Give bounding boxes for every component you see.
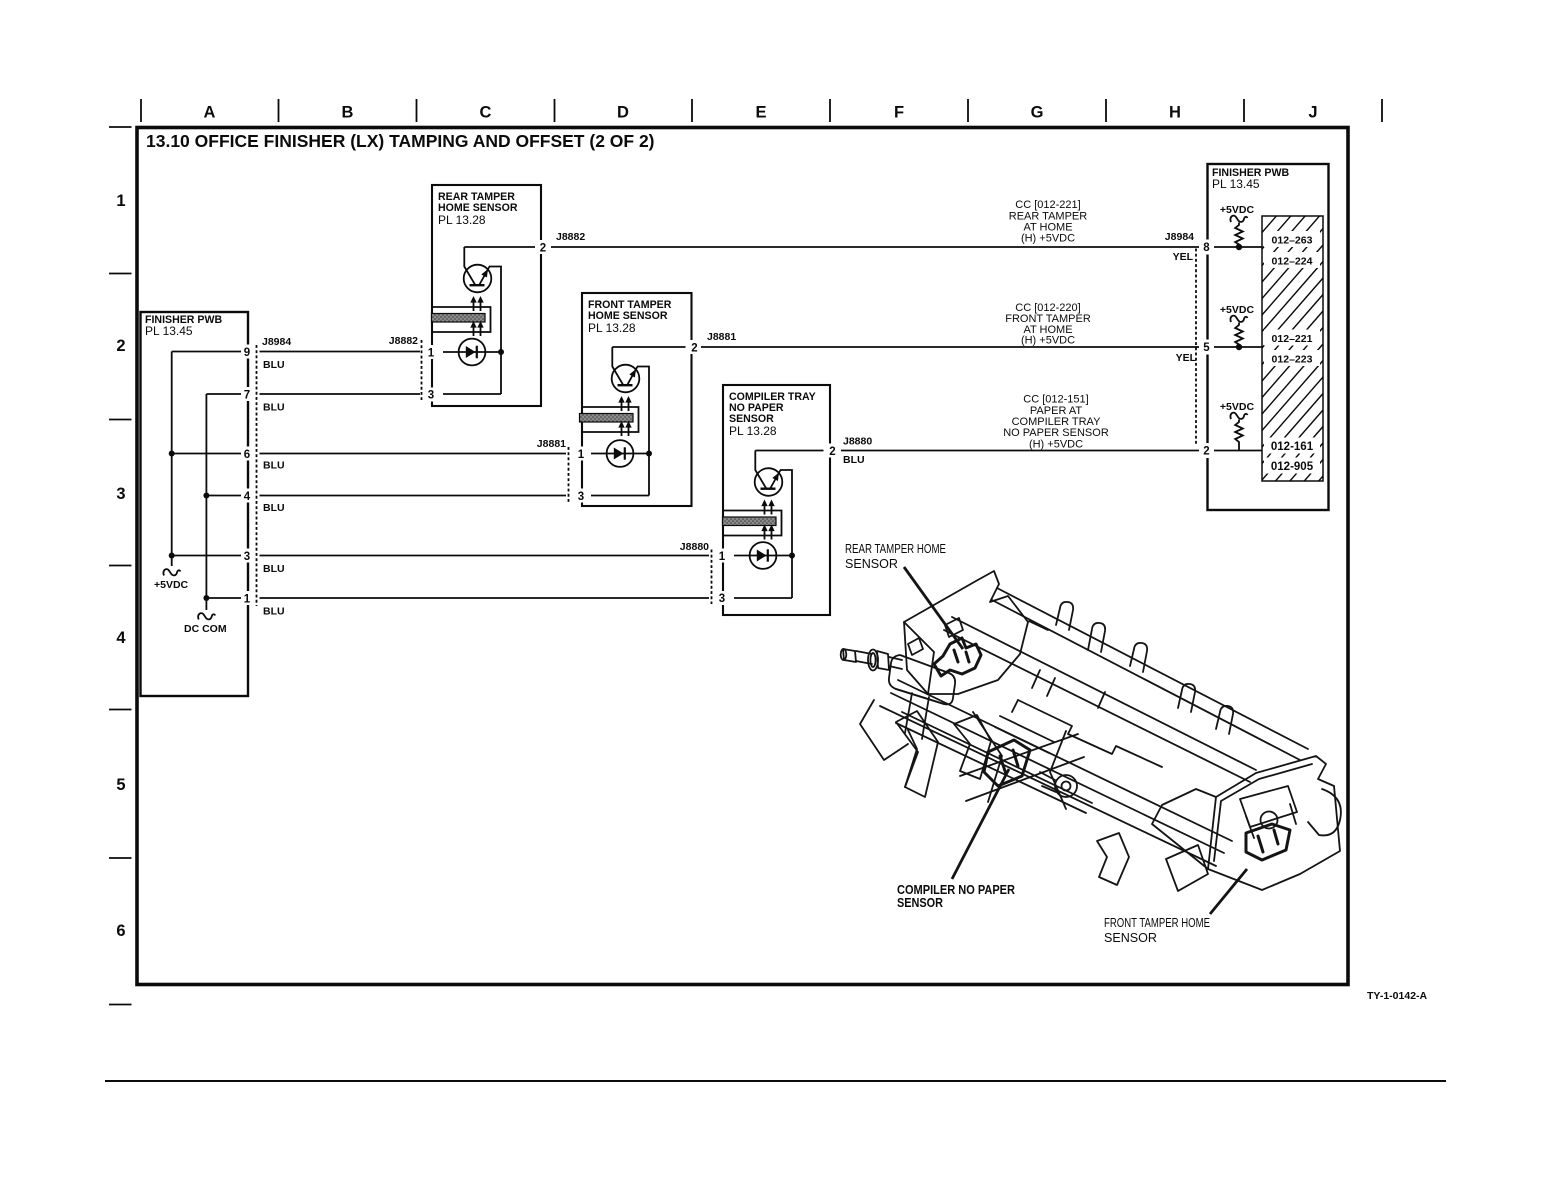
right hook arm xyxy=(1308,789,1341,835)
guide hook 5 xyxy=(1216,706,1233,734)
svg-text:J8882: J8882 xyxy=(389,335,418,347)
wire pin3 xyxy=(443,393,501,395)
wire J8984-6 to J8881-1 xyxy=(260,453,567,455)
svg-text:REAR TAMPER HOME: REAR TAMPER HOME xyxy=(845,542,946,556)
top ruler ticks xyxy=(141,99,1382,122)
svg-text:J8881: J8881 xyxy=(537,438,566,450)
junction pin1/DCCOM bus xyxy=(203,595,209,601)
svg-text:BLU: BLU xyxy=(263,606,285,618)
bottom rule xyxy=(105,1080,1446,1082)
sensor S2: FRONT TAMPER HOME SENSOR xyxy=(537,293,699,506)
sensor S1: REAR TAMPER HOME SENSOR xyxy=(389,185,548,406)
LED D xyxy=(591,453,649,455)
light arrows xyxy=(765,505,772,540)
svg-text:(H) +5VDC: (H) +5VDC xyxy=(1021,233,1075,245)
svg-text:3: 3 xyxy=(428,390,434,402)
light arrows xyxy=(474,301,481,336)
compiler no paper sensor part (black) xyxy=(984,740,1030,786)
wire pin 4 internal xyxy=(206,495,241,497)
bolt xyxy=(1055,775,1077,797)
svg-text:B: B xyxy=(342,104,354,122)
drawing sheet border xyxy=(137,128,1348,985)
svg-text:BLU: BLU xyxy=(263,563,285,575)
svg-text:DC COM: DC COM xyxy=(184,623,227,635)
svg-text:2: 2 xyxy=(691,343,697,355)
flag bar xyxy=(432,314,486,323)
guide hook 1 xyxy=(1056,602,1073,630)
svg-text:+5VDC: +5VDC xyxy=(1220,304,1255,316)
phototransistor Q xyxy=(755,468,783,496)
head sensor cluster xyxy=(1240,786,1297,827)
middle rail xyxy=(952,617,1256,770)
svg-text:J8882: J8882 xyxy=(556,231,585,243)
svg-text:3: 3 xyxy=(578,491,584,503)
net note CC [012-221] xyxy=(1009,199,1087,245)
wire pin 1 internal xyxy=(206,597,241,599)
svg-text:BLU: BLU xyxy=(263,402,285,414)
small slash marks on tray xyxy=(1032,670,1105,708)
phototransistor Q xyxy=(464,265,492,293)
wire pin 6 internal xyxy=(172,453,241,455)
+5VDC source symbol xyxy=(163,569,180,575)
svg-text:C: C xyxy=(480,104,492,122)
svg-text:2: 2 xyxy=(540,243,546,255)
finisher PWB (left) box xyxy=(141,312,249,696)
right head plate xyxy=(1208,756,1340,890)
svg-text:CC [012-151]: CC [012-151] xyxy=(1023,394,1088,406)
wire J8880-2 to J8984-2 (compiler signal) xyxy=(841,450,1199,452)
svg-text:PL 13.45: PL 13.45 xyxy=(145,324,193,338)
middle foot xyxy=(954,715,991,779)
drive roller xyxy=(889,655,955,704)
wire J8984-1 to J8880-3 xyxy=(260,597,710,599)
leader line: rear tamper home sensor xyxy=(904,567,963,649)
guide hook 3 xyxy=(1130,643,1147,672)
guide hook 4 xyxy=(1178,684,1195,712)
sensor S3: COMPILER TRAY NO PAPER SENSOR xyxy=(680,385,837,615)
svg-text:+5VDC: +5VDC xyxy=(1220,401,1255,413)
left lower bracket xyxy=(905,693,929,739)
tray face steps xyxy=(1018,700,1162,767)
LED D xyxy=(734,555,792,557)
svg-text:(H) +5VDC: (H) +5VDC xyxy=(1021,335,1075,347)
connector J8881 dashed line xyxy=(568,447,570,502)
wire emitter to rail xyxy=(780,470,792,598)
svg-text:J8880: J8880 xyxy=(843,436,872,448)
svg-text:2: 2 xyxy=(829,446,835,458)
svg-text:D: D xyxy=(617,104,629,122)
column letters xyxy=(204,104,1318,122)
wire pin2 collector xyxy=(612,347,623,385)
svg-text:TY-1-0142-A: TY-1-0142-A xyxy=(1367,990,1428,1002)
right small foot xyxy=(1097,833,1129,885)
svg-text:1: 1 xyxy=(428,348,435,360)
svg-text:4: 4 xyxy=(244,491,251,503)
pin gaps on left PWB right edge xyxy=(241,345,254,606)
wire pin2 collector xyxy=(755,451,766,489)
svg-text:A: A xyxy=(204,104,216,122)
svg-text:FRONT TAMPER HOME: FRONT TAMPER HOME xyxy=(1104,916,1210,930)
guide hook 2 xyxy=(1088,623,1105,652)
svg-text:PL 13.28: PL 13.28 xyxy=(729,424,777,438)
connector J8880 dashed line xyxy=(711,550,713,605)
svg-text:+5VDC: +5VDC xyxy=(1220,204,1255,216)
svg-text:1: 1 xyxy=(719,551,726,563)
row numbers xyxy=(116,192,126,940)
svg-text:9: 9 xyxy=(244,347,250,359)
svg-text:3: 3 xyxy=(116,485,125,503)
finisher PWB (right) box xyxy=(1208,164,1329,510)
svg-text:PL 13.28: PL 13.28 xyxy=(438,213,486,227)
wire pin3 xyxy=(734,597,792,599)
svg-text:2: 2 xyxy=(1203,446,1209,458)
wire emitter to rail xyxy=(637,367,649,496)
svg-text:G: G xyxy=(1031,104,1044,122)
DC COM bus (left PWB) xyxy=(205,394,207,610)
net note CC [012-151] xyxy=(1003,394,1109,451)
phototransistor Q xyxy=(612,365,640,393)
svg-text:YEL: YEL xyxy=(1176,352,1197,364)
svg-text:(H) +5VDC: (H) +5VDC xyxy=(1029,439,1083,451)
wire J8984-4 to J8881-3 xyxy=(260,495,567,497)
sensor box xyxy=(582,293,692,506)
svg-text:SENSOR: SENSOR xyxy=(845,557,898,571)
svg-text:13.10 OFFICE FINISHER (LX) TAM: 13.10 OFFICE FINISHER (LX) TAMPING AND O… xyxy=(146,131,655,151)
tamper fork arms xyxy=(973,712,1002,802)
junction LED/rail xyxy=(498,349,504,355)
svg-text:7: 7 xyxy=(244,390,250,402)
svg-text:BLU: BLU xyxy=(263,502,285,514)
svg-text:J8984: J8984 xyxy=(1165,231,1194,243)
svg-text:012–224: 012–224 xyxy=(1272,256,1313,268)
svg-text:NO PAPER SENSOR: NO PAPER SENSOR xyxy=(1003,427,1109,439)
wire emitter to rail xyxy=(489,267,501,395)
LED D xyxy=(443,351,501,353)
svg-text:5: 5 xyxy=(1203,342,1210,354)
svg-text:+5VDC: +5VDC xyxy=(154,579,189,591)
flag bar xyxy=(723,517,777,526)
svg-text:SENSOR: SENSOR xyxy=(1104,931,1157,945)
wire pin 3 internal xyxy=(172,555,241,557)
sensor box xyxy=(432,185,541,406)
left foot xyxy=(896,711,938,797)
leader line: front tamper home sensor xyxy=(1210,869,1247,914)
svg-text:3: 3 xyxy=(244,551,250,563)
svg-text:BLU: BLU xyxy=(843,454,865,466)
svg-text:J: J xyxy=(1308,104,1317,122)
connector J8882 dashed line xyxy=(421,340,423,400)
shaft xyxy=(843,649,856,662)
junction LED/rail xyxy=(789,553,795,559)
interrupter slot xyxy=(582,407,639,432)
left ruler ticks xyxy=(109,127,132,1005)
svg-text:PL 13.45: PL 13.45 xyxy=(1212,177,1260,191)
leader line: compiler no paper sensor xyxy=(952,769,1009,879)
svg-text:YEL: YEL xyxy=(1173,251,1194,263)
svg-text:J8880: J8880 xyxy=(680,541,709,553)
flag bar xyxy=(580,414,634,423)
svg-text:1: 1 xyxy=(578,449,585,461)
svg-text:012–263: 012–263 xyxy=(1272,235,1313,247)
wire J8882-2 to J8984-8 (rear tamper signal) xyxy=(551,246,1199,248)
light arrows xyxy=(622,401,629,436)
wire J8984-3 to J8880-1 xyxy=(260,555,710,557)
svg-text:E: E xyxy=(755,104,766,122)
sensor box xyxy=(723,385,830,615)
interrupter slot xyxy=(432,307,491,332)
junction LED/rail xyxy=(646,451,652,457)
wire pin2 collector xyxy=(464,247,475,285)
lower rail xyxy=(898,680,1232,841)
head foot xyxy=(1166,845,1208,891)
wire J8984-7 to J8882-3 xyxy=(260,393,421,395)
resistor R3 pull-up with +5VDC xyxy=(1220,401,1255,451)
upper-left plate xyxy=(904,571,1028,694)
svg-text:5: 5 xyxy=(116,776,125,794)
mechanical illustration: tamper transport assembly xyxy=(841,571,1341,891)
svg-text:012-161: 012-161 xyxy=(1271,441,1314,453)
wire pin 7 internal xyxy=(206,393,241,395)
svg-text:BLU: BLU xyxy=(263,359,285,371)
PWB internal logic block (hatched) xyxy=(1262,146,1323,563)
svg-text:2: 2 xyxy=(116,337,125,355)
wire J8984-9 to J8882-1 xyxy=(260,351,421,353)
rear tamper sensor part (black) xyxy=(934,638,981,676)
connector J8984 dashed line (right) xyxy=(1195,249,1197,446)
svg-text:CC [012-221]: CC [012-221] xyxy=(1015,199,1080,211)
svg-text:1: 1 xyxy=(116,192,125,210)
resistor R1 pull-up with +5VDC xyxy=(1220,204,1255,250)
svg-text:F: F xyxy=(894,104,904,122)
svg-text:3: 3 xyxy=(719,593,725,605)
svg-text:PL 13.28: PL 13.28 xyxy=(588,321,636,335)
junction pin3/+5VDC bus xyxy=(169,553,175,559)
top rail xyxy=(997,588,1308,749)
svg-text:COMPILER NO PAPER: COMPILER NO PAPER xyxy=(897,883,1015,897)
front tamper sensor part (black) xyxy=(1246,824,1290,860)
interrupter slot xyxy=(723,511,782,536)
svg-text:6: 6 xyxy=(244,449,250,461)
wire pin 9 internal xyxy=(172,351,241,353)
svg-text:J8984: J8984 xyxy=(262,336,291,348)
svg-text:J8881: J8881 xyxy=(707,331,736,343)
svg-text:1: 1 xyxy=(244,594,251,606)
junction pin4/DCCOM bus xyxy=(203,493,209,499)
connector J8984 dashed line xyxy=(256,345,258,606)
svg-text:012–223: 012–223 xyxy=(1272,354,1313,366)
svg-text:H: H xyxy=(1169,104,1181,122)
wire J8881-2 to J8984-5 (front tamper signal) xyxy=(701,346,1199,348)
svg-text:4: 4 xyxy=(116,629,126,647)
svg-text:8: 8 xyxy=(1203,242,1210,254)
wire pin3 xyxy=(591,495,649,497)
junction pin6/+5VDC bus xyxy=(169,451,175,457)
svg-text:BLU: BLU xyxy=(263,460,285,472)
DC COM return symbol xyxy=(198,613,215,619)
resistor R2 pull-up with +5VDC xyxy=(1220,304,1255,350)
+5VDC bus (left PWB) xyxy=(171,352,173,567)
svg-text:012-905: 012-905 xyxy=(1271,461,1314,473)
svg-text:6: 6 xyxy=(116,922,125,940)
net note CC [012-220] xyxy=(1005,302,1091,347)
svg-text:012–221: 012–221 xyxy=(1272,333,1313,345)
svg-text:SENSOR: SENSOR xyxy=(897,896,943,910)
